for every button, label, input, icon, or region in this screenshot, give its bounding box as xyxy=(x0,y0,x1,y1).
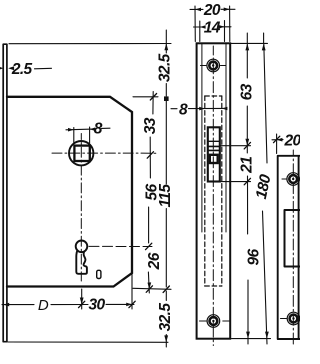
180 arrows xyxy=(262,43,266,50)
latch axis ext xyxy=(220,145,251,147)
svg-text:21: 21 xyxy=(238,157,255,174)
14 dim xyxy=(200,21,225,42)
svg-text:20: 20 xyxy=(203,2,221,19)
spindle circle xyxy=(69,141,93,165)
lock top extension xyxy=(133,96,158,98)
latch opening xyxy=(285,210,301,267)
svg-text:30: 30 xyxy=(88,297,105,314)
bottom ext of middle xyxy=(232,338,271,340)
20 dim arrows xyxy=(195,8,201,12)
keyhole xyxy=(76,241,88,253)
outer plate xyxy=(197,43,231,338)
96 arrow xyxy=(246,332,250,339)
D arrows xyxy=(3,303,9,307)
bottom screw hole xyxy=(207,315,220,328)
oblique ticks xyxy=(150,94,156,101)
plate outline xyxy=(278,156,300,339)
outer dim line x=166.3 (32.5 / 115 / 32.5) xyxy=(165,30,167,347)
filled square junction marker xyxy=(164,96,169,101)
top screw hole xyxy=(207,59,220,72)
svg-text:14: 14 xyxy=(204,19,221,36)
top extension line xyxy=(9,43,171,45)
spindle 8 dim line xyxy=(66,128,110,130)
svg-text:115: 115 xyxy=(157,184,174,208)
bottom extension line xyxy=(8,341,168,343)
latch bolt xyxy=(208,127,220,181)
keyhole center dashed extension xyxy=(89,245,152,247)
svg-text:20: 20 xyxy=(283,133,300,150)
svg-text:33: 33 xyxy=(142,117,159,134)
spindle square xyxy=(74,146,89,161)
lock bottom extension xyxy=(133,288,171,289)
inner long lines xyxy=(202,44,226,233)
svg-text:8: 8 xyxy=(179,102,188,119)
svg-text:D: D xyxy=(38,297,49,314)
svg-text:2.5: 2.5 xyxy=(11,61,33,78)
spindle 8 dim extension lines xyxy=(74,127,90,143)
arrows: up at top of outer left dim xyxy=(164,43,168,50)
right 20 arrow xyxy=(277,138,283,142)
dashed pocket xyxy=(205,96,222,286)
keyhole extension line down to D line xyxy=(81,289,83,309)
right top screw hole xyxy=(287,173,300,186)
2.5 arrows xyxy=(0,66,3,70)
top ext of middle xyxy=(231,42,268,44)
svg-text:63: 63 xyxy=(239,83,256,100)
180 dim line xyxy=(263,33,268,344)
8 spindle arrows xyxy=(68,128,74,132)
inner dim line x~152 (33 / 56 / 26) xyxy=(148,92,153,294)
middle center line vertical xyxy=(212,46,214,346)
svg-text:8: 8 xyxy=(94,121,103,138)
63 arrows xyxy=(245,43,249,50)
63/21/96 dim line x=247.4 xyxy=(246,33,249,344)
right bottom screw hole xyxy=(287,312,300,325)
-8- arrows xyxy=(199,107,205,111)
lock case outline xyxy=(7,97,132,287)
svg-text:26: 26 xyxy=(146,252,163,270)
latch bottom ext xyxy=(220,181,251,183)
-8- dim line xyxy=(171,107,226,109)
small slot near keyhole xyxy=(97,270,101,278)
svg-text:32.5: 32.5 xyxy=(157,303,174,332)
svg-text:96: 96 xyxy=(245,249,262,266)
svg-text:32.5: 32.5 xyxy=(157,53,174,82)
center line vertical through spindle and keyhole xyxy=(80,134,82,282)
14 dim arrows xyxy=(200,25,206,29)
right center line xyxy=(292,150,294,346)
center line horizontal through spindle xyxy=(52,152,156,154)
faceplate (side view strip) xyxy=(3,44,7,342)
20 dim xyxy=(195,6,230,42)
right 20 dim xyxy=(272,134,300,154)
